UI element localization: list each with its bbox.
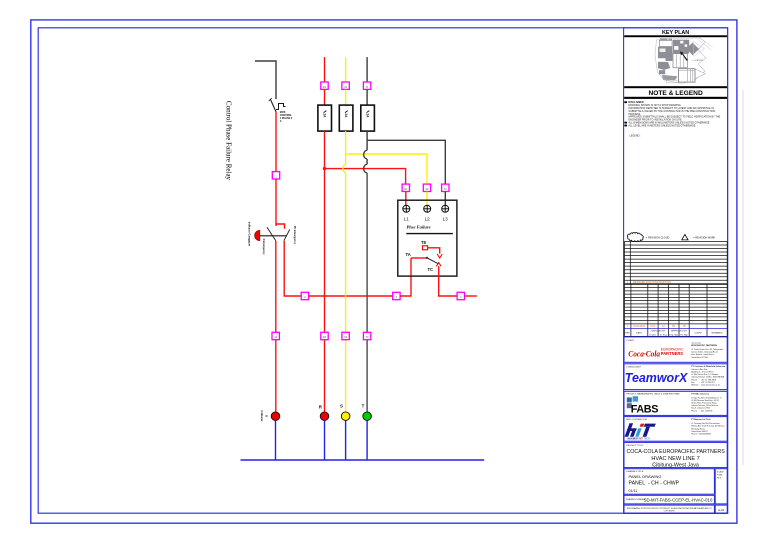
svg-text:SD-MIT-FABS-CCEP-EL-HVAC-010: SD-MIT-FABS-CCEP-EL-HVAC-010	[644, 497, 713, 502]
phase R wire top	[324, 57, 326, 82]
svg-text:PLAN: PLAN	[717, 473, 723, 476]
svg-text:Sr. Eng: Sr. Eng	[660, 333, 668, 336]
svg-text:Jawa Barat 40553: Jawa Barat 40553	[691, 430, 708, 433]
revision mark symbol	[682, 234, 688, 240]
svg-text:PT Cushman & Wakefield Indones: PT Cushman & Wakefield Indonesia	[691, 366, 726, 368]
svg-text:S: S	[340, 403, 343, 408]
svg-text:Wisma Asri Teluk Pucung, Kel.B: Wisma Asri Teluk Pucung, Kel.Bekasi,	[691, 425, 725, 428]
junction R branch	[323, 167, 326, 170]
svg-text:REV: REV	[625, 332, 630, 334]
svg-text:COCA-COLA EUROPACIFIC PARTNERS: COCA-COLA EUROPACIFIC PARTNERS	[626, 449, 725, 455]
fuse F2 2A	[339, 105, 353, 131]
svg-text:SUBMITTALS ISSUED BY THE CONTR: SUBMITTALS ISSUED BY THE CONTRACTOR IN T…	[628, 110, 715, 113]
svg-text:T: T	[362, 403, 365, 408]
svg-text:Bandung Barat,: Bandung Barat,	[691, 427, 705, 430]
svg-text:PT Makmur Inti Tech: PT Makmur Inti Tech	[691, 418, 711, 421]
fuse F1 2A	[318, 105, 332, 131]
terminal L3	[442, 205, 449, 221]
svg-text:R: R	[265, 415, 269, 417]
svg-text:TB: TB	[683, 326, 686, 328]
consultant box	[624, 364, 727, 390]
phase R wire down	[324, 131, 326, 412]
svg-text:MEP CONTRACTOR: MEP CONTRACTOR	[626, 418, 647, 421]
wire TA horizontal	[411, 257, 427, 259]
terminal T1	[363, 82, 370, 89]
terminal X5	[272, 332, 279, 339]
svg-text:Phone : 021 2700765: Phone : 021 2700765	[691, 410, 713, 412]
wire neutral drop 1	[275, 421, 277, 461]
terminal R2	[402, 184, 409, 191]
phase S wire down with hop	[345, 131, 347, 164]
terminal X3	[393, 292, 400, 299]
wire TC down	[439, 266, 457, 296]
blade TA	[427, 258, 438, 264]
svg-text:ALL LEVEL ARE IN METERS UNLESS: ALL LEVEL ARE IN METERS UNLESS NOTED OTH…	[628, 124, 696, 127]
mit box	[624, 417, 727, 442]
wire branch T to relay	[367, 140, 445, 184]
terminal S1	[342, 82, 349, 89]
wire control down from MCB	[275, 112, 277, 171]
svg-text:CHECKED BY: CHECKED BY	[651, 331, 666, 333]
svg-text:HVAC NEW LINE 7: HVAC NEW LINE 7	[651, 456, 699, 462]
fabs box	[624, 391, 727, 415]
svg-text:PC Emergency: PC Emergency	[293, 226, 297, 245]
svg-text:Kav.6, Jakarta 12950: Kav.6, Jakarta 12950	[691, 407, 711, 410]
svg-text:Danau Indah, Cikarang Barat: Danau Indah, Cikarang Barat	[691, 351, 718, 354]
wire neutral drop 4	[366, 421, 368, 461]
client box	[624, 337, 727, 362]
wire TC stub	[465, 295, 477, 297]
terminal X0	[272, 172, 279, 179]
svg-text:KEY PLAN: KEY PLAN	[662, 30, 689, 36]
svg-text:CLIENT: CLIENT	[626, 340, 634, 342]
terminal L1	[403, 205, 410, 221]
terminal T3	[363, 332, 370, 339]
terminal S2	[423, 184, 430, 191]
phase T wire top	[366, 57, 368, 82]
wire neutral drop 3	[345, 421, 347, 461]
svg-text:Coca·Cola: Coca·Cola	[628, 348, 660, 358]
wire lamp branch down	[275, 241, 277, 413]
key plan map	[655, 38, 713, 84]
wire R to fuse	[324, 89, 326, 105]
terminal X2	[301, 292, 308, 299]
svg-text:CONSULTANT: CONSULTANT	[626, 365, 641, 368]
svg-text:Jakarta Selatan 12430 - INDONE: Jakarta Selatan 12430 - INDONESIA	[691, 376, 724, 379]
terminal T2	[442, 184, 449, 191]
contact PC NO blade	[284, 229, 290, 240]
revision table lower	[625, 284, 728, 336]
svg-text:Jl. Citanduy No.450 Perumahan,: Jl. Citanduy No.450 Perumahan,	[691, 422, 720, 425]
svg-text:Indikator: Indikator	[260, 411, 264, 422]
svg-text:APPROVED BY: APPROVED BY	[671, 330, 687, 333]
fold mark line right	[742, 90, 744, 465]
lamp H4 T	[363, 412, 372, 421]
svg-text:L3: L3	[443, 217, 449, 222]
wire control to contact	[275, 179, 277, 226]
svg-text:TA: TA	[406, 252, 411, 257]
relay U1 Phase Failure box	[398, 200, 457, 276]
terminal X4	[457, 292, 464, 299]
wire incoming feed L	[255, 61, 276, 99]
wire T2 to L3	[444, 192, 446, 206]
svg-text:2A: 2A	[365, 113, 369, 118]
svg-text:CLIENT: CLIENT	[694, 332, 702, 334]
svg-text:COPYRIGHT: COPYRIGHT	[664, 510, 676, 512]
svg-text:LEGEND :: LEGEND :	[629, 134, 641, 137]
svg-text:PROJECT TITLE: PROJECT TITLE	[626, 445, 643, 447]
wire branch R to relay	[325, 169, 406, 185]
svg-text:04-02-2023: 04-02-2023	[633, 326, 645, 328]
titleblock frame	[624, 28, 728, 513]
svg-text:A-01: A-01	[718, 508, 725, 512]
svg-text:PROJECT MANAGEMENT, CM&S & STA: PROJECT MANAGEMENT, CM&S & STARTER TEAM	[626, 393, 679, 396]
revision cloud symbol	[627, 233, 643, 242]
svg-text:3: 3	[627, 326, 629, 328]
svg-text:SCALE: SCALE	[717, 470, 724, 473]
wire S to fuse	[345, 89, 347, 105]
svg-text:2A: 2A	[344, 113, 348, 118]
svg-text:NOTE & LEGEND: NOTE & LEGEND	[648, 90, 702, 97]
bus neutral	[241, 459, 485, 461]
svg-text:= REVISION MARK: = REVISION MARK	[693, 236, 715, 239]
svg-text:Drafter: Drafter	[650, 333, 657, 336]
svg-text:TeamworX: TeamworX	[625, 370, 689, 385]
svg-text:Indikator Gangguan: Indikator Gangguan	[248, 222, 252, 247]
drawing number box	[624, 495, 714, 504]
svg-text:L2: L2	[425, 217, 431, 222]
drawing title box	[624, 469, 714, 495]
wire branch S to relay	[346, 154, 427, 184]
svg-text:A: A	[280, 120, 282, 123]
svg-text:Kab. Bekasi, Jawa Barat: Kab. Bekasi, Jawa Barat	[691, 353, 714, 356]
wire step to NO contact	[276, 224, 285, 229]
svg-text:Cibitung-West Java: Cibitung-West Java	[652, 462, 699, 468]
svg-text:2A: 2A	[322, 113, 326, 118]
divider line	[406, 233, 453, 235]
svg-text:Jl. Teuku Umar Km. 46, Telukja: Jl. Teuku Umar Km. 46, Telukjambe	[691, 348, 724, 351]
svg-text:Prj. Mgr: Prj. Mgr	[680, 333, 688, 336]
wire S2 to L2	[426, 192, 428, 206]
sheet box	[715, 505, 727, 513]
svg-text:Jl. RA. Kartini Kav. 8, Ciland: Jl. RA. Kartini Kav. 8, Cilandak	[691, 373, 718, 376]
wire TA riser	[400, 258, 411, 296]
svg-text:DRAWING TITLE: DRAWING TITLE	[626, 470, 644, 473]
wire T8 to arrow	[428, 248, 440, 254]
svg-text:: LOCATION: : LOCATION	[692, 59, 704, 62]
lamp H1	[271, 412, 280, 421]
svg-text:Jawa Barat 17530: Jawa Barat 17530	[691, 356, 708, 359]
svg-text:WL: WL	[672, 326, 676, 328]
revision table upper	[625, 242, 728, 284]
coil contact T8	[423, 246, 428, 250]
svg-text:Website : www.teamworx.co.id: Website : www.teamworx.co.id	[691, 384, 719, 387]
svg-text:Jakarta Selatan, Ruko Mutiara: Jakarta Selatan, Ruko Mutiara	[691, 404, 719, 407]
arrow NO	[436, 263, 441, 267]
svg-text:NTS: NTS	[717, 477, 722, 479]
header NOTE & LEGEND	[624, 86, 727, 88]
lamp H0 trouble indicator	[255, 230, 287, 240]
notes text	[624, 101, 720, 137]
svg-text:Control Phase Failure Relay: Control Phase Failure Relay	[225, 101, 233, 181]
svg-text:REISSUED FOR CONSTRUCTION: REISSUED FOR CONSTRUCTION	[633, 281, 671, 284]
svg-text:TC: TC	[428, 267, 434, 272]
wire NO branch down and right	[284, 241, 301, 296]
wire to relay TA	[309, 295, 393, 297]
svg-text:EUROPACIFIC PARTNERS: EUROPACIFIC PARTNERS	[691, 344, 717, 347]
contact PC NC blade	[267, 227, 276, 241]
breaker CB1 MCB Control 1 Phase 2A	[269, 98, 293, 123]
svg-text:1 PHASE 2: 1 PHASE 2	[280, 117, 293, 120]
lamp H2 R	[320, 412, 329, 421]
svg-text:Eng. Mgr: Eng. Mgr	[669, 333, 678, 336]
pivot	[426, 257, 428, 259]
phase T wire down with hops	[366, 131, 368, 150]
svg-text:CPY: CPY	[651, 326, 656, 328]
svg-text:REMARKS: REMARKS	[712, 331, 723, 334]
arrow NC	[437, 254, 442, 258]
wire R2 to L1	[405, 192, 407, 206]
svg-text:T8: T8	[421, 240, 427, 245]
svg-text:PT FaBs Indonesia: PT FaBs Indonesia	[691, 394, 710, 396]
wire T to fuse	[366, 89, 368, 105]
fuse F3 2A	[361, 105, 375, 131]
svg-text:= REVISION CLOUD: = REVISION CLOUD	[646, 236, 670, 239]
svg-text:DATE: DATE	[636, 331, 642, 334]
svg-text:Phse Failure: Phse Failure	[407, 225, 431, 230]
lamp H3 S	[341, 412, 350, 421]
svg-text:PANEL DRAWING: PANEL DRAWING	[629, 474, 662, 479]
svg-text:R: R	[319, 405, 323, 410]
svg-text:Phone : 08123456898: Phone : 08123456898	[691, 434, 712, 436]
svg-text:PARTNERS: PARTNERS	[661, 351, 683, 356]
terminal L2	[424, 205, 431, 221]
terminal S3	[342, 332, 349, 339]
svg-text:MAKMUR INTI TECH: MAKMUR INTI TECH	[628, 437, 651, 440]
svg-text:4 Emergency: 4 Emergency	[262, 238, 266, 255]
svg-text:AJ: AJ	[662, 325, 665, 328]
svg-text:FABS: FABS	[631, 404, 658, 416]
scale box	[715, 469, 727, 504]
svg-text:Graha Mas, Fatmawati Raya: Graha Mas, Fatmawati Raya	[691, 402, 717, 405]
terminal R3	[321, 332, 328, 339]
copyright box	[624, 505, 714, 513]
terminal R1	[321, 82, 328, 89]
svg-text:L1: L1	[404, 217, 410, 222]
project title box	[624, 442, 727, 468]
svg-text:Jakarta Office Site: Jakarta Office Site	[691, 368, 708, 371]
svg-text:01/11: 01/11	[629, 489, 638, 493]
phase S wire top	[345, 57, 347, 82]
wire neutral drop 2	[324, 421, 326, 461]
svg-text:PANEL - CH - CHWP: PANEL - CH - CHWP	[629, 481, 680, 487]
